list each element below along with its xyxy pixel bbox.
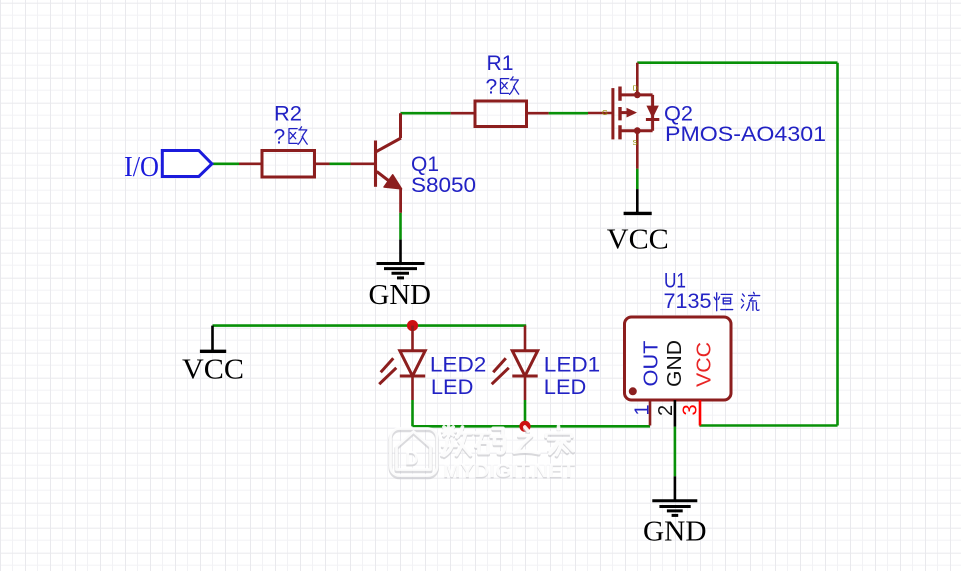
svg-text:7135: 7135 (664, 290, 712, 313)
watermark 数 (442, 428, 471, 457)
value R2 ?欧 (274, 126, 308, 149)
value U1 流 (741, 292, 759, 310)
svg-text:GND: GND (369, 279, 432, 311)
svg-text:S: S (633, 138, 638, 147)
wire Q2 source to VCC (636, 169, 639, 190)
value U1 恒 (714, 293, 732, 311)
wire LED1 bottom drop (524, 400, 527, 426)
node junction LED1 bottom (519, 421, 530, 432)
svg-text:LED1: LED1 (544, 354, 600, 377)
power VCC left (200, 326, 226, 352)
ground GND1 under Q1 (377, 240, 425, 278)
mosfet Q2 (588, 63, 659, 169)
svg-text:GND: GND (664, 340, 686, 387)
wire bottom rail to U1 pin1 (413, 425, 651, 428)
node Q2 drain dot (634, 92, 641, 99)
diode LED1 (492, 326, 538, 400)
wire R2 to Q1 base (330, 163, 351, 166)
svg-text:D: D (405, 449, 419, 470)
value R1 ?欧 (486, 75, 519, 98)
wire LED top rail (413, 324, 527, 327)
watermark 码 (475, 430, 504, 455)
pin 2 stub (674, 400, 677, 427)
svg-text:3: 3 (680, 404, 702, 415)
svg-text:GND: GND (643, 515, 707, 547)
svg-text:?: ? (486, 75, 498, 98)
wire bottom right to U1 pin3 (699, 424, 837, 427)
watermark 家 (546, 428, 573, 456)
svg-text:R1: R1 (487, 52, 514, 75)
svg-text:LED2: LED2 (430, 354, 486, 377)
wire I/O to R2 (212, 163, 239, 166)
svg-text:Q1: Q1 (411, 153, 439, 176)
svg-text:G: G (602, 108, 608, 117)
pin 3 stub (699, 400, 702, 426)
power VCC under Q2 (624, 189, 652, 213)
node junction LED top rail (407, 320, 418, 331)
node Q2 source dot (634, 127, 641, 134)
diode LED2 (379, 326, 425, 400)
wire Q1 emitter to GND (399, 213, 402, 240)
svg-text:S8050: S8050 (411, 174, 476, 197)
wire Q1 collector to R1 (401, 112, 451, 115)
wire LED2 bottom drop (411, 400, 414, 426)
svg-text:MYDIGIT.NET: MYDIGIT.NET (443, 461, 575, 482)
wire R1 to Q2 gate (549, 112, 588, 115)
svg-text:?: ? (274, 126, 286, 149)
svg-text:2: 2 (655, 405, 677, 416)
transistor Q1 emitter arrow (384, 175, 402, 189)
svg-text:LED: LED (431, 376, 474, 399)
transistor Q1 (351, 113, 402, 213)
watermark 之 (514, 429, 538, 455)
svg-text:1: 1 (632, 404, 654, 415)
svg-text:I/O: I/O (124, 152, 159, 183)
watermark logo house (391, 430, 438, 477)
wire VCC to LED top rail (213, 324, 413, 327)
wire Q2 drain top run (637, 61, 837, 64)
resistor R2 (239, 151, 330, 178)
svg-text:VCC: VCC (182, 354, 244, 386)
svg-text:R2: R2 (274, 102, 302, 125)
pin 1 stub (649, 400, 652, 426)
wire right vertical (836, 63, 839, 426)
svg-text:D: D (633, 84, 639, 93)
IC U1 pin1 dot (629, 387, 637, 395)
svg-text:LED: LED (544, 376, 587, 399)
svg-text:OUT: OUT (641, 341, 663, 387)
IC U1 box (625, 317, 732, 400)
ground GND2 under U1 (652, 476, 697, 515)
wire U1 pin2 to GND (674, 427, 677, 477)
svg-text:VCC: VCC (607, 224, 669, 256)
mosfet Q2 body diode (646, 106, 658, 119)
svg-text:VCC: VCC (694, 342, 716, 387)
resistor R1 (451, 101, 549, 127)
svg-text:PMOS-AO4301: PMOS-AO4301 (665, 123, 826, 146)
mosfet Q2 gate arrow (627, 108, 638, 118)
svg-text:Q2: Q2 (664, 102, 693, 125)
svg-text:U1: U1 (664, 269, 686, 292)
port I/O flag (162, 151, 212, 177)
